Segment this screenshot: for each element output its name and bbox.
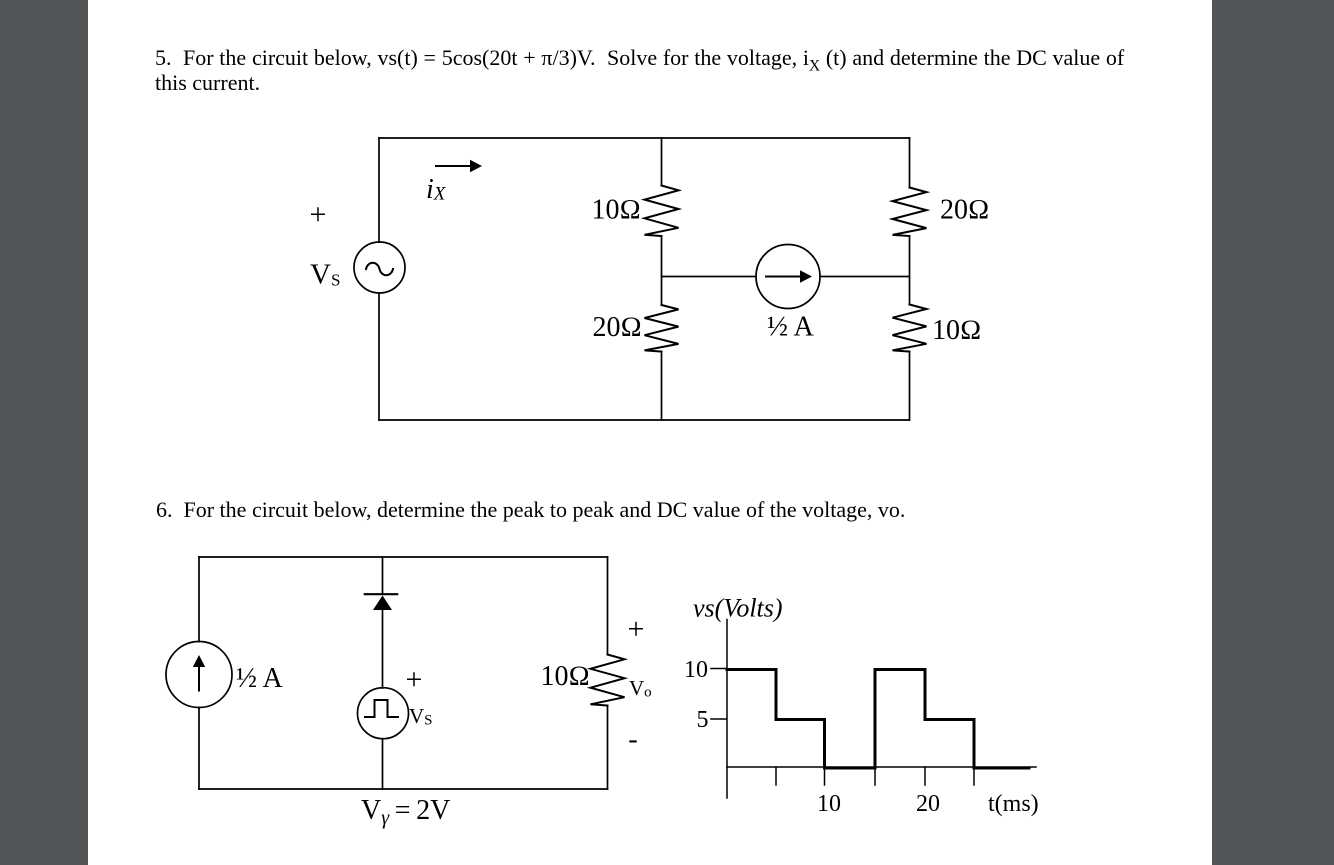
x tick at 25ms — [973, 767, 975, 785]
current source 1/2A circle (circuit2) — [166, 642, 232, 708]
wire: right branch middle — [909, 236, 911, 305]
wire: right branch bottom lead — [909, 352, 911, 421]
svg-text:-: - — [628, 724, 637, 755]
y tick at 10 — [711, 668, 726, 670]
wire: circuit2 left branch above source — [198, 557, 200, 642]
sine symbol inside Vs — [366, 263, 393, 275]
resistor 20ohm (middle bottom) — [645, 305, 679, 352]
svg-text:+: + — [628, 613, 645, 646]
svg-text:½ A: ½ A — [767, 312, 814, 343]
wire: circuit2 bottom rail — [199, 788, 608, 790]
svg-text:10: 10 — [817, 791, 841, 817]
wire: current source to right branch — [820, 276, 910, 278]
svg-text:10: 10 — [684, 657, 708, 683]
svg-text:20Ω: 20Ω — [592, 312, 642, 343]
svg-text:VS: VS — [409, 704, 433, 729]
wire: circuit2 right branch bottom lead — [607, 706, 609, 790]
problem 5 text line 2 — [155, 72, 260, 94]
y tick at 5 — [711, 718, 726, 720]
x tick at 10ms — [824, 767, 826, 785]
wire: right branch top lead — [909, 138, 911, 188]
svg-text:20Ω: 20Ω — [940, 195, 990, 226]
svg-text:10Ω: 10Ω — [591, 195, 641, 226]
svg-text:Vo: Vo — [629, 676, 652, 701]
problem 5 text line 1 — [155, 47, 1124, 74]
svg-text:t(ms): t(ms) — [988, 791, 1039, 817]
svg-text:iX: iX — [426, 174, 447, 205]
diode D1 cathode bar — [365, 593, 397, 595]
svg-text:vs(Volts): vs(Volts) — [693, 594, 783, 623]
wire: middle branch bottom lead — [661, 352, 663, 421]
arrow inside circuit2 current source — [198, 666, 200, 691]
current source 1/2A circle — [756, 245, 820, 309]
wire: mid node to current source — [662, 276, 757, 278]
x tick at 20ms — [924, 767, 926, 785]
square pulse symbol inside source — [365, 700, 398, 717]
svg-text:Vγ = 2V: Vγ = 2V — [361, 795, 450, 829]
wire: middle branch between resistors — [661, 236, 663, 305]
wire: diode to square-wave source — [382, 610, 384, 688]
square wave source Vs circle — [358, 688, 409, 739]
svg-text:20: 20 — [916, 791, 940, 817]
arrow ix — [436, 165, 471, 167]
wire: circuit1 left branch above Vs — [378, 138, 380, 242]
svg-text:VS: VS — [310, 259, 340, 291]
wire: circuit2 right branch top lead — [607, 557, 609, 655]
x tick at 15ms — [874, 767, 876, 785]
svg-text:5: 5 — [697, 707, 709, 733]
resistor 10ohm circuit2 — [591, 655, 625, 706]
wire: middle branch top lead — [661, 138, 663, 186]
resistor 20ohm (right top) — [893, 188, 927, 237]
wire: circuit1 left branch below Vs — [378, 293, 380, 420]
x tick at 5ms — [775, 767, 777, 785]
arrow inside current source — [766, 276, 801, 278]
problem 6 text — [156, 499, 905, 521]
diode D1 triangle — [373, 596, 392, 611]
resistor 10ohm (middle top) — [645, 186, 679, 237]
waveform vs(t) — [727, 670, 1029, 769]
svg-text:+: + — [406, 663, 423, 696]
wire: circuit2 left branch below source — [198, 708, 200, 790]
svg-text:+: + — [310, 198, 327, 231]
wire: square-wave source to bottom rail — [382, 739, 384, 789]
svg-text:10Ω: 10Ω — [932, 315, 982, 346]
source Vs (sinusoidal) circle — [354, 242, 405, 293]
wire: circuit1 bottom rail — [379, 419, 910, 421]
wire: circuit2 middle branch above diode — [382, 557, 384, 594]
wire: circuit2 top rail — [199, 556, 608, 558]
resistor 10ohm (right bottom) — [893, 305, 927, 352]
svg-text:10Ω: 10Ω — [540, 661, 590, 692]
wire: circuit1 top rail — [379, 137, 910, 139]
graph y-axis — [726, 620, 728, 799]
svg-text:½ A: ½ A — [236, 663, 283, 694]
graph x-axis — [727, 766, 1036, 768]
